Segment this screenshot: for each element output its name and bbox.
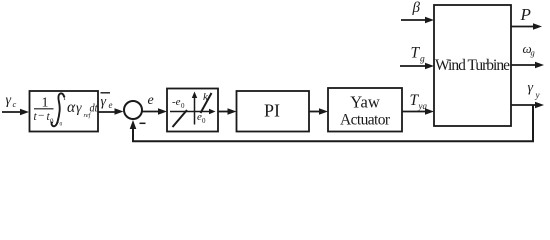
svg-text:α: α bbox=[67, 99, 76, 116]
svg-text:e: e bbox=[148, 93, 154, 108]
svg-text:Wind Turbine: Wind Turbine bbox=[435, 57, 510, 74]
svg-text:-e: -e bbox=[172, 96, 181, 108]
svg-text:g: g bbox=[531, 48, 535, 58]
svg-text:y: y bbox=[535, 90, 540, 100]
svg-text:Yaw: Yaw bbox=[350, 93, 380, 112]
svg-text:Actuator: Actuator bbox=[340, 112, 391, 129]
svg-text:0: 0 bbox=[181, 102, 185, 110]
svg-text:T: T bbox=[411, 45, 421, 62]
svg-text:γ: γ bbox=[101, 95, 107, 110]
svg-text:0: 0 bbox=[202, 117, 206, 125]
svg-text:β: β bbox=[412, 0, 421, 16]
svg-text:−: − bbox=[38, 110, 45, 122]
svg-text:g: g bbox=[420, 55, 425, 65]
svg-text:P: P bbox=[520, 5, 531, 24]
svg-text:PI: PI bbox=[264, 101, 280, 121]
svg-text:ya: ya bbox=[418, 101, 428, 111]
svg-text:c: c bbox=[13, 99, 17, 109]
svg-text:γ: γ bbox=[528, 81, 534, 96]
svg-text:e: e bbox=[109, 100, 113, 110]
svg-text:γ: γ bbox=[76, 101, 82, 116]
svg-text:dt: dt bbox=[90, 101, 99, 115]
svg-text:γ: γ bbox=[6, 93, 12, 108]
svg-text:0: 0 bbox=[60, 122, 63, 128]
